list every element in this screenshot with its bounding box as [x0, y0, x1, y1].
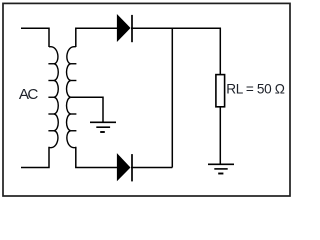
wire D2 cathode to junction: [131, 167, 172, 169]
wire node A junction down to bottom rail: [171, 28, 173, 167]
ground (load): [208, 164, 234, 173]
wire center tap: [71, 97, 103, 121]
resistor RL: [216, 75, 225, 107]
wire secondary top to diode D1 anode: [76, 28, 117, 47]
wire top rail down to resistor RL: [219, 28, 221, 75]
svg-text:AC: AC: [19, 86, 39, 103]
wire AC source top lead: [21, 28, 49, 47]
wire AC source bottom lead: [21, 147, 49, 168]
wire resistor RL to ground: [219, 107, 221, 164]
transformer T1 primary winding: [48, 47, 58, 148]
svg-text:RL = 50 Ω: RL = 50 Ω: [226, 82, 284, 97]
wire D1 cathode to node A (top rail): [131, 27, 220, 29]
diode D1: [117, 15, 132, 42]
transformer T1 secondary winding: [67, 47, 77, 148]
ground (center tap): [90, 122, 116, 132]
wire secondary bottom to diode D2 anode: [76, 147, 117, 168]
diode D2: [117, 154, 132, 181]
